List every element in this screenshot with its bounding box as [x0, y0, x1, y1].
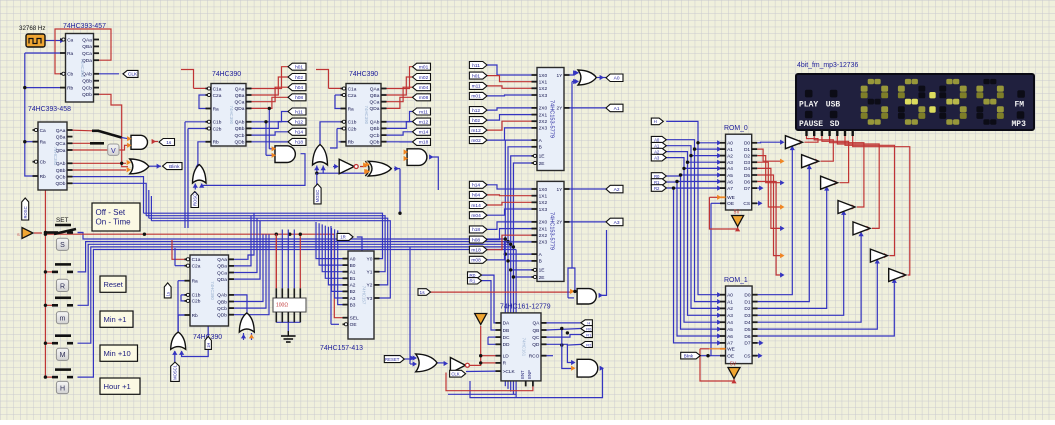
svg-text:LD: LD: [503, 354, 510, 360]
svg-text:D0: D0: [744, 141, 750, 147]
svg-text:QBa: QBa: [82, 44, 92, 50]
svg-text:QBb: QBb: [217, 299, 227, 305]
svg-text:QAb: QAb: [217, 293, 227, 299]
svg-text:R1: R1: [654, 180, 660, 185]
svg-text:QAa: QAa: [82, 37, 92, 43]
svg-text:ROSC1: ROSC1: [192, 191, 197, 206]
svg-text:m02: m02: [419, 75, 429, 81]
svg-text:MP3: MP3: [1012, 120, 1027, 129]
svg-text:ENT: ENT: [520, 370, 525, 379]
svg-text:Ca: Ca: [40, 128, 46, 134]
svg-text:m18: m18: [471, 248, 481, 254]
svg-text:m04: m04: [419, 85, 429, 91]
svg-text:A0: A0: [727, 141, 733, 147]
svg-text:Min +1: Min +1: [104, 315, 127, 324]
svg-text:1X0: 1X0: [539, 187, 548, 193]
svg-text:A2: A2: [727, 306, 733, 312]
svg-text:D2: D2: [744, 153, 750, 159]
svg-text:QDb: QDb: [370, 140, 380, 146]
svg-text:h11: h11: [472, 63, 480, 69]
svg-text:m12: m12: [419, 119, 429, 125]
svg-text:A0: A0: [727, 293, 733, 299]
svg-text:2X0: 2X0: [539, 106, 548, 112]
svg-text:D1: D1: [744, 299, 750, 305]
svg-text:CS: CS: [743, 201, 750, 207]
svg-text:QCb: QCb: [235, 133, 245, 139]
svg-text:2X3: 2X3: [539, 240, 548, 246]
svg-text:M: M: [60, 352, 66, 359]
svg-text:D4: D4: [744, 166, 750, 172]
svg-text:D5: D5: [744, 327, 750, 333]
svg-text:QAa: QAa: [235, 86, 245, 92]
svg-text:C1b: C1b: [348, 120, 357, 126]
svg-text:Y1: Y1: [367, 270, 373, 276]
svg-text:A1: A1: [727, 299, 733, 305]
svg-text:4bit_fm_mp3-12736: 4bit_fm_mp3-12736: [797, 62, 858, 69]
svg-text:A2: A2: [614, 187, 620, 193]
svg-text:QCa: QCa: [235, 100, 245, 106]
svg-text:2X0: 2X0: [539, 220, 548, 226]
svg-text:A4: A4: [727, 320, 733, 326]
svg-text:A3: A3: [350, 296, 356, 302]
svg-text:C2a: C2a: [348, 93, 357, 99]
svg-text:2X3: 2X3: [539, 126, 548, 132]
svg-text:m08: m08: [419, 95, 429, 101]
svg-text:1X3: 1X3: [539, 93, 548, 99]
svg-text:1X1: 1X1: [539, 80, 548, 86]
svg-text:USB: USB: [826, 100, 841, 109]
svg-text:RCO: RCO: [529, 354, 540, 360]
svg-text:m01: m01: [419, 65, 429, 71]
svg-text:1E: 1E: [539, 268, 545, 274]
svg-text:A0: A0: [654, 138, 660, 143]
svg-text:QCb: QCb: [370, 133, 380, 139]
svg-text:S: S: [60, 242, 65, 249]
svg-text:QCb: QCb: [217, 306, 227, 312]
svg-text:Blink: Blink: [169, 164, 180, 170]
svg-text:1X3: 1X3: [539, 207, 548, 213]
svg-text:74HC390: 74HC390: [210, 281, 215, 300]
svg-text:QAa: QAa: [217, 257, 227, 263]
svg-text:74HC390: 74HC390: [212, 71, 241, 78]
svg-text:74HC390: 74HC390: [364, 105, 369, 124]
svg-text:m08: m08: [471, 258, 481, 264]
svg-text:74HC393: 74HC393: [80, 58, 85, 77]
svg-text:QCb: QCb: [82, 85, 92, 91]
svg-text:MOSC1: MOSC1: [173, 364, 178, 380]
svg-text:QBa: QBa: [56, 134, 66, 140]
svg-text:D3: D3: [744, 160, 750, 166]
svg-text:D6: D6: [744, 179, 750, 185]
svg-text:A5: A5: [727, 327, 733, 333]
svg-text:B: B: [539, 145, 542, 151]
svg-text:Ra: Ra: [192, 279, 198, 285]
svg-text:74HC157: 74HC157: [362, 286, 367, 305]
svg-text:QBa: QBa: [217, 264, 227, 270]
svg-text:74HC393-458: 74HC393-458: [28, 106, 71, 113]
svg-text:C2b: C2b: [348, 126, 357, 132]
svg-text:D7: D7: [744, 186, 750, 192]
svg-text:B1: B1: [350, 276, 356, 282]
svg-text:QCa: QCa: [82, 51, 92, 57]
svg-text:h08: h08: [472, 237, 480, 243]
svg-text:R0: R0: [586, 326, 592, 331]
svg-text:D5: D5: [744, 173, 750, 179]
svg-text:A3: A3: [727, 160, 733, 166]
svg-text:2Y: 2Y: [557, 220, 564, 226]
svg-text:2E: 2E: [539, 275, 545, 281]
svg-text:ENP: ENP: [527, 370, 532, 379]
svg-text:QCa: QCa: [370, 100, 380, 106]
svg-text:ROM_1: ROM_1: [724, 277, 748, 284]
svg-text:QCa: QCa: [217, 270, 227, 276]
svg-text:Ca: Ca: [67, 37, 73, 43]
svg-text:A0: A0: [350, 256, 356, 262]
svg-text:Blink: Blink: [684, 353, 694, 358]
svg-text:100Ω: 100Ω: [276, 303, 288, 309]
svg-text:D0: D0: [744, 293, 750, 299]
svg-text:74HC153-5779: 74HC153-5779: [549, 100, 555, 138]
svg-text:m12: m12: [471, 128, 481, 134]
svg-text:Rb: Rb: [40, 174, 46, 180]
svg-text:A4: A4: [727, 166, 733, 172]
svg-text:1H: 1H: [206, 343, 211, 348]
svg-text:h12: h12: [472, 108, 480, 114]
svg-text:OE: OE: [350, 322, 357, 328]
svg-text:h12: h12: [295, 119, 303, 125]
svg-text:A3: A3: [727, 313, 733, 319]
svg-text:A2: A2: [727, 153, 733, 159]
svg-text:QDb: QDb: [217, 313, 227, 319]
svg-text:A3: A3: [654, 155, 660, 160]
svg-text:FM: FM: [1015, 100, 1025, 109]
svg-text:Rb: Rb: [67, 85, 73, 91]
svg-text:Rb: Rb: [192, 313, 198, 319]
svg-text:m01: m01: [471, 94, 481, 100]
svg-text:QCb: QCb: [56, 174, 66, 180]
svg-text:SET: SET: [56, 217, 69, 224]
svg-text:R0: R0: [654, 174, 660, 179]
svg-text:H: H: [60, 385, 65, 392]
svg-text:Min +10: Min +10: [104, 349, 131, 358]
svg-text:5V: 5V: [734, 210, 741, 216]
svg-text:A2: A2: [654, 149, 660, 154]
svg-text:Rb: Rb: [348, 140, 354, 146]
svg-text:m14: m14: [419, 130, 429, 136]
svg-text:QBa: QBa: [370, 93, 380, 99]
svg-text:h14: h14: [472, 183, 480, 189]
svg-text:Ra: Ra: [67, 51, 73, 57]
svg-text:74HC390: 74HC390: [229, 105, 234, 124]
svg-text:2X2: 2X2: [539, 119, 548, 125]
svg-text:74HC161: 74HC161: [522, 338, 527, 357]
svg-text:C1a: C1a: [192, 257, 201, 263]
svg-text:B: B: [539, 259, 542, 265]
svg-text:A7: A7: [727, 186, 733, 192]
svg-text:A2: A2: [350, 283, 356, 289]
svg-text:Rb: Rb: [213, 140, 219, 146]
svg-text:QAb: QAb: [370, 120, 380, 126]
svg-text:h04: h04: [295, 85, 303, 91]
svg-text:1s: 1s: [165, 292, 170, 296]
svg-text:QBb: QBb: [370, 126, 380, 132]
svg-text:R: R: [60, 283, 65, 290]
svg-text:QD: QD: [532, 342, 540, 348]
svg-text:1Y: 1Y: [557, 187, 564, 193]
svg-text:Y0: Y0: [367, 256, 373, 262]
svg-text:R: R: [503, 361, 507, 367]
svg-text:74HC157-413: 74HC157-413: [320, 345, 363, 352]
svg-text:74HC393: 74HC393: [53, 147, 58, 166]
svg-text:ROM_0: ROM_0: [724, 125, 748, 132]
svg-text:2X1: 2X1: [539, 226, 548, 232]
svg-text:74HC161-12779: 74HC161-12779: [500, 304, 551, 311]
svg-text:C1a: C1a: [213, 86, 222, 92]
svg-text:SD: SD: [830, 120, 840, 129]
svg-text:C1a: C1a: [348, 86, 357, 92]
svg-text:2X1: 2X1: [539, 112, 548, 118]
svg-text:>CLK: >CLK: [503, 369, 516, 375]
svg-text:ROSC: ROSC: [23, 206, 28, 218]
svg-text:C1b: C1b: [192, 293, 201, 299]
svg-text:2E: 2E: [539, 161, 545, 167]
svg-text:C1b: C1b: [213, 120, 222, 126]
svg-text:h01: h01: [472, 73, 480, 79]
svg-text:H: H: [654, 119, 657, 124]
svg-text:A1: A1: [350, 270, 356, 276]
svg-text:DB: DB: [503, 328, 510, 334]
svg-text:QBa: QBa: [235, 93, 245, 99]
svg-text:C2b: C2b: [213, 126, 222, 132]
svg-text:Ra: Ra: [40, 140, 46, 146]
svg-text:1X2: 1X2: [539, 86, 548, 92]
svg-text:m04: m04: [471, 213, 481, 219]
svg-text:D1: D1: [744, 147, 750, 153]
svg-text:QDa: QDa: [217, 277, 227, 283]
svg-text:h01: h01: [295, 65, 303, 71]
svg-text:OE: OE: [727, 201, 734, 207]
svg-text:1X2: 1X2: [539, 200, 548, 206]
svg-text:74HC153-5779: 74HC153-5779: [549, 212, 555, 250]
svg-text:Cb: Cb: [40, 160, 46, 166]
svg-text:Cb: Cb: [67, 72, 73, 78]
svg-text:A3: A3: [614, 220, 620, 226]
svg-text:1E: 1E: [539, 154, 545, 160]
svg-text:h02: h02: [295, 75, 303, 81]
svg-text:QA: QA: [532, 321, 540, 327]
svg-text:A6: A6: [727, 179, 733, 185]
svg-text:h18: h18: [472, 227, 480, 233]
svg-text:On - Time: On - Time: [96, 218, 132, 227]
svg-text:h18: h18: [295, 140, 303, 146]
svg-text:QAa: QAa: [370, 86, 380, 92]
svg-text:D6: D6: [744, 334, 750, 340]
svg-text:m: m: [60, 316, 66, 323]
svg-text:QAb: QAb: [235, 120, 245, 126]
svg-text:1Y: 1Y: [557, 73, 564, 79]
svg-text:Reset: Reset: [104, 280, 123, 289]
svg-text:Hour +1: Hour +1: [104, 382, 131, 391]
svg-text:74HC393-457: 74HC393-457: [63, 23, 106, 30]
svg-text:5V: 5V: [730, 362, 737, 368]
svg-text:DC: DC: [503, 335, 510, 341]
svg-text:QDb: QDb: [82, 92, 92, 98]
svg-text:QDb: QDb: [235, 140, 245, 146]
svg-text:Ra: Ra: [348, 106, 354, 112]
svg-text:B2: B2: [350, 289, 356, 295]
svg-text:Ra: Ra: [213, 106, 219, 112]
svg-text:1R: 1R: [340, 235, 346, 240]
svg-text:A0: A0: [614, 76, 620, 82]
svg-text:m14: m14: [471, 203, 481, 209]
svg-text:QDb: QDb: [56, 181, 66, 187]
svg-text:R1: R1: [469, 279, 475, 285]
svg-text:m11: m11: [419, 109, 428, 115]
svg-text:QDa: QDa: [235, 106, 245, 112]
svg-text:QDa: QDa: [370, 106, 380, 112]
svg-text:SEL: SEL: [350, 316, 359, 322]
svg-text:1X1: 1X1: [539, 194, 548, 200]
svg-text:1s: 1s: [166, 140, 172, 146]
svg-text:QBb: QBb: [82, 79, 92, 85]
svg-text:C2a: C2a: [213, 93, 222, 99]
svg-text:QAa: QAa: [56, 128, 66, 134]
svg-text:RESET: RESET: [385, 357, 400, 362]
svg-text:C2b: C2b: [192, 299, 201, 305]
svg-text:h14: h14: [295, 130, 303, 136]
svg-text:WE: WE: [727, 347, 735, 353]
svg-text:1X0: 1X0: [539, 73, 548, 79]
svg-text:C2a: C2a: [192, 264, 201, 270]
svg-text:CLK: CLK: [451, 372, 459, 377]
svg-text:h02: h02: [472, 118, 480, 124]
svg-text:A6: A6: [727, 334, 733, 340]
svg-text:D4: D4: [744, 320, 750, 326]
svg-text:CLK: CLK: [128, 72, 138, 78]
svg-text:A1: A1: [614, 106, 620, 112]
svg-text:m02: m02: [471, 138, 481, 144]
svg-text:H: H: [587, 321, 590, 326]
svg-text:R2: R2: [654, 186, 660, 191]
svg-text:QBb: QBb: [56, 168, 66, 174]
svg-text:D3: D3: [744, 313, 750, 319]
svg-text:m18: m18: [419, 140, 429, 146]
svg-text:B3: B3: [350, 302, 356, 308]
svg-text:h04: h04: [472, 193, 480, 199]
svg-text:V: V: [111, 148, 116, 155]
svg-text:A1: A1: [727, 147, 733, 153]
svg-text:QBb: QBb: [235, 126, 245, 132]
svg-text:D7: D7: [744, 341, 750, 347]
svg-text:m11: m11: [472, 84, 481, 90]
svg-text:QB: QB: [532, 328, 539, 334]
svg-text:A5: A5: [727, 173, 733, 179]
svg-text:MOSC: MOSC: [315, 190, 320, 203]
svg-text:B0: B0: [350, 263, 356, 269]
svg-text:2Y: 2Y: [557, 106, 564, 112]
svg-text:2X2: 2X2: [539, 233, 548, 239]
svg-text:DA: DA: [503, 321, 510, 327]
svg-text:A7: A7: [727, 341, 733, 347]
svg-text:D2: D2: [744, 306, 750, 312]
svg-text:1s: 1s: [420, 290, 426, 296]
svg-text:74HC390: 74HC390: [349, 71, 378, 78]
svg-text:S: S: [17, 232, 20, 237]
svg-text:R1: R1: [586, 332, 592, 337]
svg-text:h11: h11: [295, 109, 303, 115]
svg-text:QC: QC: [532, 335, 540, 341]
svg-text:CS: CS: [744, 354, 751, 360]
svg-text:DD: DD: [503, 342, 510, 348]
svg-text:R2: R2: [586, 342, 592, 347]
svg-text:OE: OE: [727, 354, 734, 360]
svg-text:Off - Set: Off - Set: [96, 208, 126, 217]
svg-text:h08: h08: [295, 95, 303, 101]
svg-text:WE: WE: [727, 195, 735, 201]
svg-text:PAUSE: PAUSE: [799, 120, 823, 129]
svg-text:32768 Hz: 32768 Hz: [19, 25, 46, 32]
svg-text:PLAY: PLAY: [799, 100, 818, 109]
